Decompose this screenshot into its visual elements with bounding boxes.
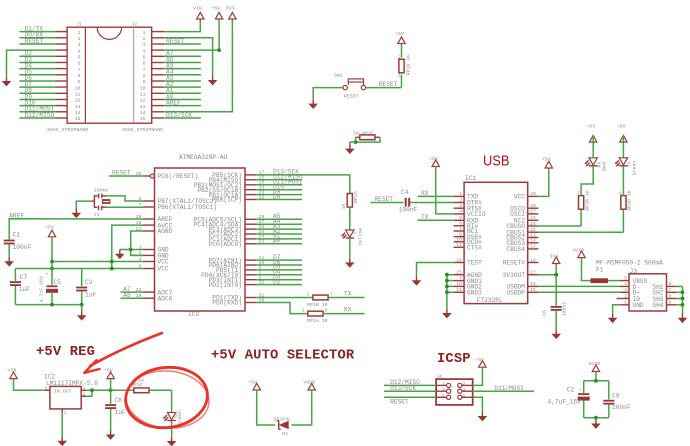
svg-text:100nF: 100nF [399,207,418,214]
J1 net wires left [19,32,55,118]
svg-text:4: 4 [463,388,466,393]
wire +5V to VCC pin4 row [51,237,53,269]
svg-text:RESET#: RESET# [503,260,526,267]
svg-text:2: 2 [83,392,86,397]
IC1 right pin names [503,194,526,297]
svg-text:3V3: 3V3 [226,6,235,12]
node D12/MISO wire to J4 pin1 [384,379,436,386]
wire 3V3OUT to 3V3 and C6 [538,264,558,306]
svg-text:12: 12 [75,98,81,104]
wire CBUS0 to RP2B [538,225,581,227]
IC1 left pin names [467,194,486,297]
svg-text:4: 4 [78,48,81,54]
wire AVCC riser [112,225,144,268]
svg-text:14: 14 [530,238,536,244]
svg-text:+5V: +5V [429,156,438,162]
power VIN at IC2 [10,372,17,379]
resistor RP2A 1K [341,191,359,230]
svg-text:A6: A6 [123,292,131,299]
wire J2 pin1 to VIN [164,19,200,32]
power +5V above RP1D [398,37,405,44]
op IC2 LM1117IMPX-5.0 regulator [44,374,98,416]
wire +5V to VCCIO pin4 [436,167,454,214]
svg-text:4: 4 [624,281,627,287]
net RESET wire SW1 to RP1D [366,87,402,89]
svg-text:3: 3 [624,287,627,293]
capacitor C8 1uF [105,397,126,430]
wire D1/TX to RP1B [256,297,313,299]
svg-text:+5V: +5V [542,157,551,163]
svg-text:7: 7 [78,67,81,73]
svg-text:TX: TX [421,214,429,221]
svg-text:2: 2 [398,56,401,61]
switch SW1 [334,73,366,100]
svg-text:1: 1 [78,30,81,36]
svg-text:3: 3 [442,388,445,393]
svg-text:9: 9 [459,231,462,237]
svg-text:1uF: 1uF [85,292,96,299]
wire AGND chain [120,231,144,255]
svg-text:RESET: RESET [25,38,44,45]
capacitor C6 100nF [542,302,568,330]
power +5V at J4 [479,361,486,368]
IC3 left pin numbers [136,171,142,299]
wire caps bottom rail [15,304,81,306]
svg-text:3V3OUT: 3V3OUT [503,272,526,279]
ground RP2C [345,144,355,154]
ground AGND [115,250,125,260]
svg-text:PC0(ADC0): PC0(ADC0) [209,241,242,248]
LED TX Green [615,142,638,175]
svg-text:IN OUT: IN OUT [54,389,72,395]
J2 net wires and labels [164,44,201,118]
svg-text:RP1A 1K: RP1A 1K [307,318,328,324]
wire VIN to IC2 input [14,379,45,391]
svg-text:13: 13 [530,232,536,238]
svg-text:D1: D1 [282,431,288,437]
wire IC2 gnd pin to ground [61,413,63,437]
IC3 right pin names [194,172,242,307]
ground C6 [551,330,561,340]
svg-text:3V3: 3V3 [550,254,559,260]
svg-text:ATMEGA328P-AU: ATMEGA328P-AU [179,154,228,161]
ground J1 pin4 [2,77,12,87]
junction dots VCC rails [50,260,54,264]
power VUSB above F1 [578,251,585,258]
svg-text:6: 6 [463,394,466,399]
svg-text:RESET: RESET [166,38,185,45]
svg-text:VCC: VCC [514,194,525,201]
svg-text:23: 23 [530,221,536,227]
ground J2 pin2 [208,76,218,86]
svg-text:10: 10 [456,237,462,243]
wire Y1 gnd pin [76,201,94,208]
wire J2 pin4 to +5V [164,19,219,50]
svg-text:RESET: RESET [390,398,409,405]
svg-text:D8: D8 [273,193,281,200]
svg-text:10: 10 [140,85,146,91]
svg-text:D13/SCK: D13/SCK [390,385,416,392]
svg-text:J2: J2 [132,22,138,28]
wire SW1 left to ground [313,88,343,100]
svg-text:+5V: +5V [476,357,485,363]
ground LED yellow [345,258,355,268]
ground SW1 [308,99,318,109]
svg-text:USB: USB [483,153,510,170]
node RX label at TXD [418,190,454,197]
capacitor C5 4,7uF 16V polarized [39,269,62,305]
resistor RP1D 1K [398,44,412,88]
wire J2 pin14 to 3V3 [164,19,232,112]
svg-text:IC1: IC1 [465,175,476,182]
power VUSB at C2 C9 [592,365,599,372]
power +5V top [215,12,222,19]
svg-text:PB0(ICP): PB0(ICP) [212,197,242,204]
svg-text:7: 7 [669,287,672,293]
power 3V3 top [229,12,236,19]
svg-text:Green: Green [177,410,183,425]
svg-text:2: 2 [459,197,462,203]
wire AGND GND1 GND2 GND3 bus [447,275,454,309]
svg-text:14: 14 [140,110,146,116]
svg-text:L: L [352,231,358,234]
svg-text:MF-MSMF050-2 500mA: MF-MSMF050-2 500mA [596,260,663,267]
svg-text:1: 1 [442,382,445,387]
pin 29 inversion circle [150,174,154,178]
svg-text:100nF: 100nF [612,404,631,411]
wire caps to ground [595,418,597,420]
power +5V at selector [253,383,260,390]
svg-text:+5V: +5V [212,6,221,12]
svg-text:7: 7 [577,192,580,197]
IC1 left pin numbers [456,191,462,293]
svg-text:C2: C2 [567,386,575,393]
annotation red arrow [90,333,162,366]
wire TEST to ground [417,263,454,277]
svg-text:5: 5 [624,275,627,281]
connector J3 USB body [629,268,667,311]
svg-text:GND: GND [633,302,644,309]
svg-text:PC6(/RESET): PC6(/RESET) [158,173,199,180]
svg-text:TX: TX [344,290,352,297]
svg-text:RP1B 1K: RP1B 1K [307,302,328,308]
wire CBUS1 to RP2D [538,231,623,233]
junction J2 pin4 [217,48,221,52]
svg-text:100nF: 100nF [562,302,568,317]
svg-text:2: 2 [624,293,627,299]
power +5V above C5 [48,230,55,237]
svg-text:3: 3 [143,42,146,48]
ground Y1 [72,209,82,219]
svg-text:Y1: Y1 [94,212,100,218]
svg-text:Red: Red [601,162,607,171]
wire J3 GND to ground [613,305,620,314]
svg-text:1: 1 [624,300,627,306]
svg-text:9: 9 [669,300,672,306]
svg-text:XXXX_STRIPNANO: XXXX_STRIPNANO [122,127,163,133]
power VUSB at selector [308,383,315,390]
wire VUSB to fuse [582,258,591,281]
ground caps rail [81,305,83,311]
svg-text:7: 7 [143,67,146,73]
LED yellow [341,228,363,258]
connector J4 ICSP header [436,374,473,405]
svg-text:ICSP: ICSP [437,352,471,367]
svg-text:3: 3 [45,387,48,392]
J3 right pin stubs [667,286,677,304]
svg-text:6: 6 [669,281,672,287]
svg-text:PB6(XTAL1/TOSC1): PB6(XTAL1/TOSC1) [158,204,217,211]
svg-text:VUSB: VUSB [303,380,315,386]
svg-text:VCC: VCC [158,259,169,266]
capacitor C7 1uF [10,269,30,305]
wire VUSB to caps rail [595,372,597,381]
svg-text:3: 3 [459,203,462,209]
svg-text:+5V: +5V [45,225,54,231]
svg-text:AREF: AREF [9,212,24,219]
svg-text:12: 12 [140,98,146,104]
svg-text:1: 1 [143,30,146,36]
IC3 right net labels [273,174,303,286]
IC3 right pin stubs [245,175,256,303]
svg-text:PD2(INT0): PD2(INT0) [209,282,242,289]
wire ADC6 A6 [121,292,144,299]
svg-text:5: 5 [442,394,445,399]
svg-text:TEST: TEST [467,260,482,267]
ground J4 [478,412,488,422]
svg-text:1: 1 [398,74,401,79]
svg-text:19: 19 [530,257,536,263]
svg-text:27: 27 [530,209,536,215]
svg-text:+5V AUTO SELECTOR: +5V AUTO SELECTOR [211,349,355,364]
power +5V to VCCIO [432,160,439,167]
power +5V above LED TX [620,135,627,142]
diode D1 SS1P3L [274,417,292,437]
fuse F1 MF-MSMF050-2 500mA [591,260,664,283]
svg-text:RP1D 1K: RP1D 1K [406,55,412,76]
capacitor C1 100nF [4,232,32,257]
wire J2 pin2 to ground [164,38,212,76]
svg-text:14: 14 [75,110,81,116]
svg-text:7: 7 [459,226,462,232]
wire VCC row pin6 / caps top rail [15,268,143,270]
svg-text:4: 4 [143,48,146,54]
svg-text:8: 8 [143,73,146,79]
power VIN top [197,12,204,19]
svg-text:24: 24 [530,215,536,221]
svg-text:10: 10 [75,85,81,91]
svg-text:4: 4 [459,209,462,215]
ground IC2 [57,437,67,446]
svg-text:VUSB: VUSB [573,248,585,254]
resistor RP1B 1K [307,293,365,309]
node D13/SCK wire to J4 pin3 [384,385,436,392]
svg-text:1: 1 [459,191,462,197]
svg-text:2: 2 [78,36,81,42]
wire C2 C9 parallel box [584,381,609,418]
svg-text:11: 11 [140,92,146,98]
svg-text:4: 4 [83,387,86,392]
net RESET to C4 [370,196,403,203]
resistor RP2D 1K [619,167,632,233]
svg-text:C5: C5 [54,279,62,286]
capacitor C9 100nF [603,392,631,411]
ground C2 C9 [591,419,601,429]
resistor RP1C 1K [131,377,172,412]
svg-text:18: 18 [456,281,462,287]
svg-text:7: 7 [459,275,462,281]
capacitor C4 100nF [399,189,454,214]
node D11/MOSI wire J4 pin4 [473,385,534,392]
svg-text:D2: D2 [273,278,281,285]
svg-text:IC3: IC3 [188,311,199,318]
svg-text:D11/MOSI: D11/MOSI [494,385,524,392]
svg-text:C9: C9 [612,392,620,399]
svg-text:+5V: +5V [104,368,113,374]
svg-text:1K: 1K [341,204,347,210]
svg-text:+: + [46,273,49,278]
svg-text:D12/MISO: D12/MISO [25,112,55,119]
svg-text:GND3: GND3 [467,290,482,297]
power +5V at IC1 VCC [545,161,552,168]
wire USBDP to J3 D+ [538,291,619,293]
svg-text:8: 8 [78,73,81,79]
svg-text:A0: A0 [273,238,281,245]
svg-text:Yellow: Yellow [357,228,363,246]
svg-text:17: 17 [530,270,536,276]
svg-text:Green: Green [632,161,638,176]
svg-text:6: 6 [78,61,81,67]
op IC3 ATMEGA328P-AU body [155,154,246,318]
IC1 right pin stubs [528,196,539,292]
svg-text:1: 1 [302,309,305,314]
wire VCC row pin4 [52,261,144,263]
wire J4 pin6 to ground [473,397,483,412]
wire VCC to +5V [538,168,548,196]
wire USBDM to J3 D- [538,285,619,287]
svg-text:15: 15 [530,287,536,293]
J1 net labels [25,25,55,118]
svg-text:C3: C3 [85,279,93,286]
wire J4 pin2 to +5V [473,367,483,385]
svg-text:C4: C4 [401,189,409,196]
wire GND pin5 row [131,254,144,256]
svg-text:PD0(RXD): PD0(RXD) [212,300,242,307]
svg-text:SW1: SW1 [334,73,343,79]
wire selector right [292,390,312,425]
svg-text:SH4: SH4 [652,302,663,309]
svg-text:2: 2 [307,293,310,298]
svg-text:9: 9 [143,79,146,85]
svg-text:1: 1 [64,411,67,416]
svg-text:RESET: RESET [379,81,398,88]
capacitor C2 4,7uF 16V polarized [548,386,590,405]
svg-text:RESET: RESET [344,94,359,100]
svg-text:C1: C1 [13,232,21,239]
wire D13/SCK to RP2A [256,175,350,194]
wire Y1 bottom to IC3 pin7 [107,206,144,208]
ground C1 [4,257,14,267]
node TX label at RXD [418,214,454,221]
svg-text:6: 6 [143,61,146,67]
svg-text:21: 21 [456,287,462,293]
svg-text:1uF: 1uF [115,409,126,416]
svg-text:C7: C7 [20,274,28,281]
svg-text:RP2B 1K: RP2B 1K [585,190,591,211]
svg-text:+5V: +5V [617,123,626,129]
svg-text:4,7uF_16V: 4,7uF_16V [548,399,582,406]
svg-text:VUSB: VUSB [588,361,600,367]
J2 pin stubs and numbers [140,30,165,122]
svg-text:AGND: AGND [158,228,173,235]
wire ADC7 A7 [121,286,144,293]
IC3 right pin numbers [259,170,265,304]
svg-text:11: 11 [456,242,462,248]
svg-text:RESET: RESET [112,170,131,177]
svg-text:100nF: 100nF [13,244,32,251]
svg-text:26: 26 [456,257,462,263]
svg-text:12: 12 [530,244,536,250]
ground TEST [412,276,422,286]
svg-text:15: 15 [140,116,146,122]
svg-text:6: 6 [459,221,462,227]
svg-text:FT232RL: FT232RL [477,297,503,304]
svg-text:5: 5 [143,55,146,61]
svg-text:CTS#: CTS# [467,245,482,252]
svg-text:5: 5 [459,215,462,221]
resistor RP2B 1K [577,167,593,227]
ground IC1 bus [442,309,452,319]
J3 left pin stubs [617,281,630,305]
svg-text:6: 6 [619,192,622,197]
op IC1 FT232RL body [464,175,528,304]
annotation red circle [122,363,211,433]
svg-text:XXXX_STRIPNANO: XXXX_STRIPNANO [47,127,88,133]
IC3 right labeled stub wires [256,180,302,285]
svg-text:ADC6: ADC6 [158,295,173,302]
svg-text:16MHz: 16MHz [94,188,109,194]
svg-text:C6: C6 [542,310,548,316]
wire J3 shield bus [676,286,683,313]
svg-text:RP2D 1K: RP2D 1K [627,190,633,211]
svg-text:AREF: AREF [166,99,181,106]
capacitor C3 1uF [76,269,96,305]
svg-text:20: 20 [530,191,536,197]
wire IC2 out pins join [86,390,134,396]
svg-text:RX: RX [344,307,352,314]
LED green power [163,410,183,437]
J3 pin names [633,278,648,309]
svg-text:C8: C8 [115,397,123,404]
svg-text:25: 25 [456,270,462,276]
svg-text:+: + [579,389,582,394]
wire Y1 top to IC3 pin8 [107,196,144,201]
svg-text:15: 15 [75,116,81,122]
crystal Y1 16MHz resonator [94,188,111,218]
IC1 right pin numbers [530,191,536,293]
svg-text:+5V: +5V [248,380,257,386]
net AREF wire [9,212,143,239]
svg-text:22: 22 [530,227,536,233]
svg-text:9: 9 [78,79,81,85]
svg-text:RX: RX [421,190,429,197]
power +5V at IC2 output [107,372,114,379]
svg-text:+5V: +5V [587,123,596,129]
svg-text:VCC: VCC [158,266,169,273]
svg-text:3: 3 [78,42,81,48]
J3 pin numbers left [624,275,627,305]
IC3 left pin names [158,173,217,302]
